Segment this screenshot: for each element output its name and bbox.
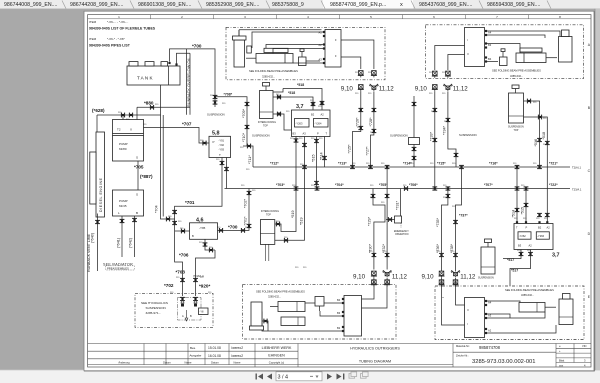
tab bar (0, 0, 600, 9)
valve block bottom middle (337, 296, 362, 337)
svg-text:*731*: *731* (396, 200, 400, 210)
svg-text:*701*: *701* (244, 216, 248, 226)
svg-text:Ausgabe: Ausgabe (190, 354, 202, 358)
svg-text:P: P (317, 132, 319, 136)
wires bottom middle box (262, 287, 387, 332)
svg-text:(*887): (*887) (140, 174, 153, 179)
svg-text:*715*: *715* (437, 162, 446, 166)
svg-text:RUNBACK VENT LINE: RUNBACK VENT LINE (87, 233, 91, 272)
wire (*642) (129, 216, 137, 257)
svg-text:*727*: *727* (365, 146, 369, 156)
svg-text:A1: A1 (319, 31, 323, 35)
svg-text:*706*: *706* (409, 183, 418, 187)
svg-text:*517: *517 (511, 269, 518, 273)
svg-text:OPERATION: OPERATION (395, 233, 409, 236)
svg-text:-Y266: -Y266 (537, 234, 544, 238)
svg-text:*707*: *707* (484, 183, 493, 187)
port numbers (118, 72, 548, 294)
scrollbar strip (595, 9, 600, 370)
wire H1 to bottom-right couplers (450, 167, 468, 272)
svg-text:*716*: *716* (489, 162, 498, 166)
svg-text:Material-Nr.:: Material-Nr.: (456, 344, 470, 348)
svg-text:*737*: *737* (459, 214, 468, 218)
svg-text:*704: *704 (155, 205, 159, 213)
svg-text:*-X6-* - *-X6*: *-X6-* - *-X6* (107, 37, 126, 41)
svg-text:ITEM: ITEM (89, 37, 97, 41)
svg-text:TANK: TANK (137, 76, 154, 81)
pump P2 (113, 190, 144, 216)
svg-text:PUMP: PUMP (119, 142, 128, 146)
svg-text:lwereo2: lwereo2 (232, 346, 244, 350)
cylinder interlocking bottom-left (260, 210, 279, 261)
svg-text:-Y262: -Y262 (519, 234, 526, 238)
note: see radiator preassembles (103, 263, 135, 271)
svg-text:x: x (400, 2, 403, 8)
main line H2 (225, 183, 582, 191)
box see folding beam pre-assemblies (bottom right) (435, 286, 584, 340)
svg-text:B: B (136, 211, 138, 215)
wires top right box (435, 31, 560, 70)
wire *704 tank drain (155, 115, 175, 221)
svg-text:*735*: *735* (436, 217, 440, 227)
svg-text:11,12: 11,12 (392, 274, 408, 281)
cylinder top right vertical (559, 30, 573, 62)
svg-text:*706: *706 (179, 253, 189, 258)
svg-text:TOP: TOP (514, 129, 519, 132)
svg-text:PREASSEMBLES: PREASSEMBLES (107, 266, 129, 270)
svg-text:*700: *700 (228, 225, 238, 230)
diesel engine (90, 132, 105, 217)
svg-text:RUNBACK OVERFLOW OIL: RUNBACK OVERFLOW OIL (186, 56, 191, 107)
svg-text:(*640): (*640) (91, 233, 95, 243)
wires cylinder mid-right down (524, 99, 550, 223)
svg-text:*514: *514 (512, 210, 516, 218)
wire *734 (443, 91, 459, 167)
wire 5,8 T down (172, 158, 229, 254)
svg-text:*517: *517 (507, 258, 514, 262)
pump P1 (113, 134, 144, 162)
svg-text:LIEBHERR WERK: LIEBHERR WERK (262, 346, 292, 350)
svg-text:986744208_999_EN....: 986744208_999_EN.... (70, 2, 123, 8)
svg-text:B2: B2 (311, 113, 315, 117)
svg-text:S: S (136, 193, 138, 197)
note: pipes list (89, 37, 131, 48)
wire *703 / 703A6-A (175, 250, 215, 296)
svg-text:-Y95: -Y95 (199, 226, 206, 230)
svg-text:Änderung: Änderung (118, 361, 130, 365)
cylinder top right horizontal (516, 48, 557, 63)
box see folding beam pre-assemblies (bottom middle) (243, 284, 397, 339)
svg-text:PUMP: PUMP (119, 199, 128, 203)
svg-text:*703*: *703* (276, 183, 285, 187)
svg-text:986744008_999_EN....: 986744008_999_EN.... (4, 2, 57, 8)
svg-text:985874708: 985874708 (479, 345, 501, 350)
cylinder bottom right vertical (559, 294, 573, 325)
svg-text:B2: B2 (337, 326, 341, 330)
svg-text:SUSPENSION: SUSPENSION (146, 306, 166, 310)
svg-text:T2: T2 (117, 128, 121, 132)
svg-text:SEE FOLDING BEAM PRE-ASSEMBLIE: SEE FOLDING BEAM PRE-ASSEMBLIES (505, 288, 554, 292)
svg-text:985352908_999_EN....: 985352908_999_EN.... (206, 2, 259, 8)
svg-text:*518: *518 (297, 83, 304, 87)
wire *728/*727 (365, 91, 376, 167)
svg-text:*729*: *729* (368, 216, 372, 226)
drawing frame (88, 15, 591, 367)
label *518 pair (288, 83, 304, 95)
wire *700* 4,6 to suspension riser (218, 189, 252, 233)
valve small top right (500, 49, 508, 66)
coupler pair into suspension box (180, 297, 208, 321)
svg-text:3 / 4: 3 / 4 (278, 375, 289, 381)
svg-text:63/45: 63/45 (119, 204, 127, 208)
wire (*628) (92, 85, 161, 132)
valve U4 3,7 (Y262/Y266) (514, 221, 560, 258)
wire *514 T to H1 (319, 137, 327, 168)
svg-text:3285-632...: 3285-632... (268, 294, 281, 298)
svg-text:SEE FOLDING BEAM PRE-ASSEMBLIE: SEE FOLDING BEAM PRE-ASSEMBLIES (492, 69, 541, 73)
svg-text:P: P (526, 226, 528, 230)
svg-text:*710*: *710* (242, 132, 246, 142)
svg-text:S: S (136, 156, 138, 160)
valve block top right (465, 28, 492, 67)
svg-text:*733*: *733* (429, 131, 433, 141)
svg-text:Zeichn-Nr.:: Zeichn-Nr.: (456, 353, 469, 357)
wire H1 to *732 coupler (382, 167, 390, 270)
wire *515 P up to H2 (right valve) (521, 189, 529, 224)
valve U2 4,6 (Y95) (190, 218, 218, 240)
cylinder small top middle (233, 30, 322, 67)
couplers bottom middle (353, 270, 407, 286)
svg-text:*700: *700 (192, 44, 202, 49)
wire *709 / *710 (215, 97, 249, 146)
svg-text:A2: A2 (529, 244, 533, 248)
wire *514 T up to H1 (right valve) (512, 167, 520, 223)
svg-text:*722*: *722* (549, 183, 558, 187)
valve U3 3,7 (Y263/Y264) (292, 104, 331, 136)
svg-text:(*628): (*628) (92, 108, 105, 113)
svg-text:-Y263: -Y263 (296, 122, 303, 126)
svg-text:VIN: VIN (582, 344, 586, 348)
wire *731 emergency (386, 186, 409, 236)
svg-text:*703: *703 (176, 270, 186, 275)
svg-text:TOP: TOP (266, 214, 271, 217)
svg-text:SUSPENSION: SUSPENSION (207, 113, 225, 117)
svg-text:-Y91: -Y91 (219, 139, 225, 143)
svg-text:T: T (219, 153, 221, 157)
fittings mid-center (409, 96, 420, 167)
svg-text:*726*: *726* (356, 117, 360, 127)
wire *711 to main line (243, 144, 253, 167)
svg-text:9,10: 9,10 (353, 274, 366, 281)
svg-text:(*641): (*641) (117, 238, 121, 248)
svg-text:EMERGENCY: EMERGENCY (394, 231, 409, 233)
wires top middle box (252, 32, 374, 69)
wire *519 A3 down (275, 137, 307, 243)
svg-text:*514: *514 (319, 152, 323, 160)
cylinder vertical bottom middle left (250, 302, 269, 331)
svg-text:SUSPENSION: SUSPENSION (252, 134, 270, 138)
cylinder bottom right horizontal (519, 303, 556, 313)
svg-text:*920*: *920* (199, 284, 210, 289)
svg-text:*705: *705 (134, 165, 144, 170)
svg-text:*515: *515 (521, 207, 525, 215)
valve small bottom middle (315, 297, 324, 312)
svg-text:*519: *519 (300, 217, 304, 225)
svg-text:*725*: *725* (347, 144, 351, 154)
svg-text:*518: *518 (542, 132, 546, 140)
svg-text:3285-632...: 3285-632... (521, 293, 534, 297)
cylinder suspension mid-left (258, 83, 276, 128)
svg-text:16.01.08: 16.01.08 (208, 354, 221, 358)
svg-text:985874708_999_EN.p...: 985874708_999_EN.p... (330, 2, 386, 8)
svg-text:SEE HYDRAULICS: SEE HYDRAULICS (141, 301, 168, 305)
svg-text:lwereo2: lwereo2 (232, 354, 244, 358)
svg-text:*702: *702 (164, 283, 174, 288)
coupler *708 suspension (207, 93, 233, 117)
svg-text:3285-632...: 3285-632... (262, 75, 275, 79)
svg-text:*713*: *713* (338, 162, 347, 166)
svg-text:DIESEL ENGINE: DIESEL ENGINE (99, 177, 103, 212)
svg-text:HYDRAULICS OUTRIGGERS: HYDRAULICS OUTRIGGERS (350, 346, 400, 350)
valve block top middle (319, 30, 342, 68)
svg-text:A2: A2 (547, 226, 551, 230)
svg-text:9,10: 9,10 (341, 86, 354, 93)
svg-text:A2: A2 (319, 43, 323, 47)
wire *880 (137, 101, 190, 110)
svg-text:63/80: 63/80 (119, 147, 127, 151)
svg-text:B3: B3 (518, 244, 522, 248)
svg-text:X: X (130, 128, 132, 132)
cylinder suspension mid-right (508, 85, 524, 132)
svg-text:*707: *707 (182, 122, 192, 127)
tank T1 (127, 62, 180, 85)
svg-text:9,10: 9,10 (422, 274, 435, 281)
svg-text:985437608_999_EN....: 985437608_999_EN.... (419, 2, 472, 8)
svg-text:B4: B4 (488, 57, 492, 61)
valve small top middle (299, 49, 321, 66)
svg-text:5,8: 5,8 (212, 131, 220, 137)
svg-text:EHINGEN: EHINGEN (268, 354, 285, 358)
svg-text:B: B (192, 234, 194, 238)
title block (88, 344, 591, 368)
svg-text:*-X6-... - *-X6-...: *-X6-... - *-X6-... (107, 20, 129, 24)
couplers under top middle box (341, 71, 394, 93)
cylinder top middle (246, 48, 293, 63)
wire *733 (429, 91, 437, 188)
svg-text:11,12: 11,12 (460, 274, 476, 281)
svg-text:SEE FOLDING BEAM PRE-ASSEMBLIE: SEE FOLDING BEAM PRE-ASSEMBLIES (249, 69, 298, 73)
svg-text:T23/A.1: T23/A.1 (572, 188, 582, 192)
svg-text:*711*: *711* (248, 155, 252, 164)
svg-text:*519: *519 (291, 210, 295, 218)
svg-text:von: von (559, 364, 564, 367)
svg-text:Copyright (c): Copyright (c) (269, 361, 284, 365)
wire H2 to bottom-right couplers (436, 189, 450, 272)
junction H2 x317 (315, 187, 320, 190)
svg-text:TOP: TOP (263, 125, 268, 128)
svg-text:Name: Name (234, 361, 241, 365)
svg-text:986594308_999_EN....: 986594308_999_EN.... (487, 2, 540, 8)
svg-text:B3: B3 (337, 311, 341, 315)
svg-text:B3: B3 (293, 132, 297, 136)
svg-text:11,12: 11,12 (379, 86, 395, 93)
wire *707 pump X to valve P (144, 122, 210, 146)
pipe runback vent line (87, 214, 100, 273)
svg-text:A2: A2 (321, 113, 325, 117)
svg-text:985375808_9: 985375808_9 (272, 2, 304, 8)
svg-text:*704*: *704* (335, 183, 344, 187)
svg-text:-Y264: -Y264 (315, 122, 322, 126)
couplers bottom right (422, 270, 476, 286)
wire *706 (179, 239, 215, 257)
svg-text:3285-973.03.00.002-001: 3285-973.03.00.002-001 (472, 359, 536, 365)
wire H2 to *729/*730 couplers (368, 189, 385, 270)
svg-text:T2(A).1: T2(A).1 (572, 166, 581, 170)
wire *515 P to H2 (311, 137, 319, 189)
svg-text:*734*: *734* (443, 125, 447, 135)
box see folding beam pre-assemblies (top middle) (226, 27, 385, 80)
wire *726/*725 (347, 91, 363, 167)
svg-text:SUSPENSION: SUSPENSION (390, 134, 408, 138)
svg-text:984399-040S PIPES LIST: 984399-040S PIPES LIST (89, 44, 131, 48)
wires cylinder to valve 3,7 mid-left (273, 89, 324, 131)
svg-text:*712*: *712* (270, 162, 279, 166)
main line H1 (253, 162, 581, 170)
svg-text:3285-632...: 3285-632... (510, 74, 523, 78)
svg-text:984399-040S LIST OF FLEXIBLE T: 984399-040S LIST OF FLEXIBLE TUBES (89, 27, 156, 31)
svg-text:ITEM: ITEM (89, 20, 97, 24)
svg-text:Datum: Datum (211, 361, 219, 365)
cylinder bottom middle (270, 302, 305, 326)
valve block bottom right (465, 298, 492, 338)
svg-text:A2: A2 (488, 329, 492, 333)
svg-text:Bes.: Bes. (190, 346, 196, 350)
bottom toolbar (0, 370, 600, 383)
pump P1 top chamber (113, 120, 144, 134)
svg-text:A3: A3 (303, 132, 307, 136)
svg-text:11,12: 11,12 (453, 86, 469, 93)
svg-text:*708*: *708* (224, 93, 233, 97)
svg-text:*518: *518 (288, 91, 295, 95)
wire *701 pump2 to suspension riser (185, 200, 195, 205)
svg-text:3,7: 3,7 (552, 253, 560, 259)
pipe runback overflow oil (186, 49, 191, 115)
svg-text:*721*: *721* (549, 162, 558, 166)
svg-text:Name: Name (185, 361, 192, 365)
wires bottom right box (442, 286, 557, 333)
svg-text:15.01.08: 15.01.08 (208, 346, 221, 350)
cylinder suspension bottom right (478, 239, 495, 280)
svg-text:-Y93: -Y93 (219, 148, 225, 152)
valve small bottom right (442, 297, 444, 299)
svg-text:(*642): (*642) (129, 238, 133, 248)
svg-text:3,7: 3,7 (296, 104, 304, 110)
svg-text:9,10: 9,10 (415, 86, 428, 93)
svg-text:3285-971...: 3285-971... (146, 311, 162, 315)
wire *519 B3 down (275, 137, 299, 232)
svg-text:Blatt: Blatt (559, 359, 564, 363)
svg-text:SUSPENSION: SUSPENSION (459, 133, 477, 137)
valve U1 5,8 (Y91-Y93) (209, 131, 231, 158)
svg-text:Datum: Datum (163, 361, 171, 365)
svg-text:*515: *515 (311, 154, 315, 162)
svg-text:B4: B4 (337, 298, 341, 302)
svg-text:B2: B2 (538, 226, 542, 230)
svg-text:986901308_999_EN....: 986901308_999_EN.... (138, 2, 191, 8)
wire *700 tank to coupler (168, 44, 215, 95)
svg-text:SEE FOLDING BEAM PRE-ASSEMBLIE: SEE FOLDING BEAM PRE-ASSEMBLIES (256, 289, 305, 293)
svg-text:*728*: *728* (369, 117, 373, 127)
extra junction fittings on main lines (294, 108, 542, 256)
wires below right valve (503, 250, 533, 287)
svg-text:*702*: *702* (244, 198, 248, 208)
svg-text:-Y8: -Y8 (200, 311, 205, 314)
box see folding beam pre-assemblies (top right) (426, 25, 584, 79)
wire 4,6 left ports (175, 229, 190, 234)
svg-text:SUSPENSION: SUSPENSION (478, 277, 494, 280)
wire pump S to pump2 (137, 161, 139, 190)
svg-text:*701: *701 (185, 200, 195, 205)
svg-text:-Y92: -Y92 (219, 143, 225, 147)
svg-text:*709*: *709* (242, 108, 246, 118)
svg-text:P: P (213, 140, 215, 144)
note: flexible tubes list (89, 20, 156, 31)
wire (*641) (117, 216, 125, 257)
svg-text:*880: *880 (144, 101, 154, 106)
svg-text:TUBING DIAGRAM: TUBING DIAGRAM (359, 359, 391, 363)
box see hydraulics suspension (135, 293, 213, 327)
couplers under top right box (415, 71, 468, 93)
